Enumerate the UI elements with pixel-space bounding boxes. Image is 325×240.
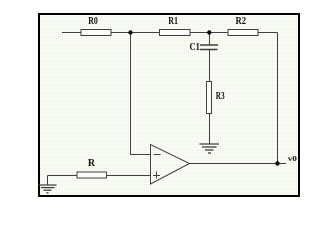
wire top-left input bbox=[62, 32, 81, 34]
wire C1 to R3 bbox=[209, 50, 211, 82]
node output junction bbox=[275, 161, 279, 165]
capacitor C1 bbox=[200, 45, 218, 50]
wire right vertical to output bbox=[277, 33, 279, 164]
svg-text:R2: R2 bbox=[236, 16, 247, 27]
wire R3 to ground bbox=[209, 114, 211, 145]
op-amp minus sign bbox=[154, 154, 161, 156]
resistor R0 bbox=[81, 30, 111, 36]
svg-text:R0: R0 bbox=[88, 16, 98, 27]
wire ground to R bbox=[48, 175, 78, 177]
resistor R3 bbox=[207, 82, 212, 114]
node junction R1-R2 / C1 bbox=[207, 30, 211, 34]
wire output horizontal bbox=[190, 163, 287, 165]
svg-text:R3: R3 bbox=[216, 91, 225, 102]
svg-text:v0: v0 bbox=[288, 154, 297, 163]
svg-text:R: R bbox=[88, 158, 96, 169]
node junction after R0 bbox=[128, 30, 132, 34]
wire feedback left vertical bbox=[131, 33, 151, 155]
wire R to op-amp plus input bbox=[107, 175, 151, 177]
resistor R2 bbox=[228, 30, 258, 36]
svg-text:R1: R1 bbox=[168, 16, 178, 27]
op-amp plus sign bbox=[153, 175, 160, 177]
op-amp U1 bbox=[151, 145, 190, 185]
wire R1 to R2 bbox=[190, 32, 228, 34]
wire node to C1 bbox=[209, 33, 211, 46]
wire ground stub left bbox=[47, 176, 49, 185]
ground bottom-left bbox=[39, 185, 57, 193]
resistor R1 bbox=[160, 30, 191, 36]
resistor R bbox=[77, 172, 107, 178]
svg-text:C1: C1 bbox=[190, 42, 200, 53]
ground below R3 bbox=[200, 144, 220, 153]
wire R2 to right corner bbox=[258, 32, 278, 34]
wire R0 to R1 bbox=[111, 32, 160, 34]
